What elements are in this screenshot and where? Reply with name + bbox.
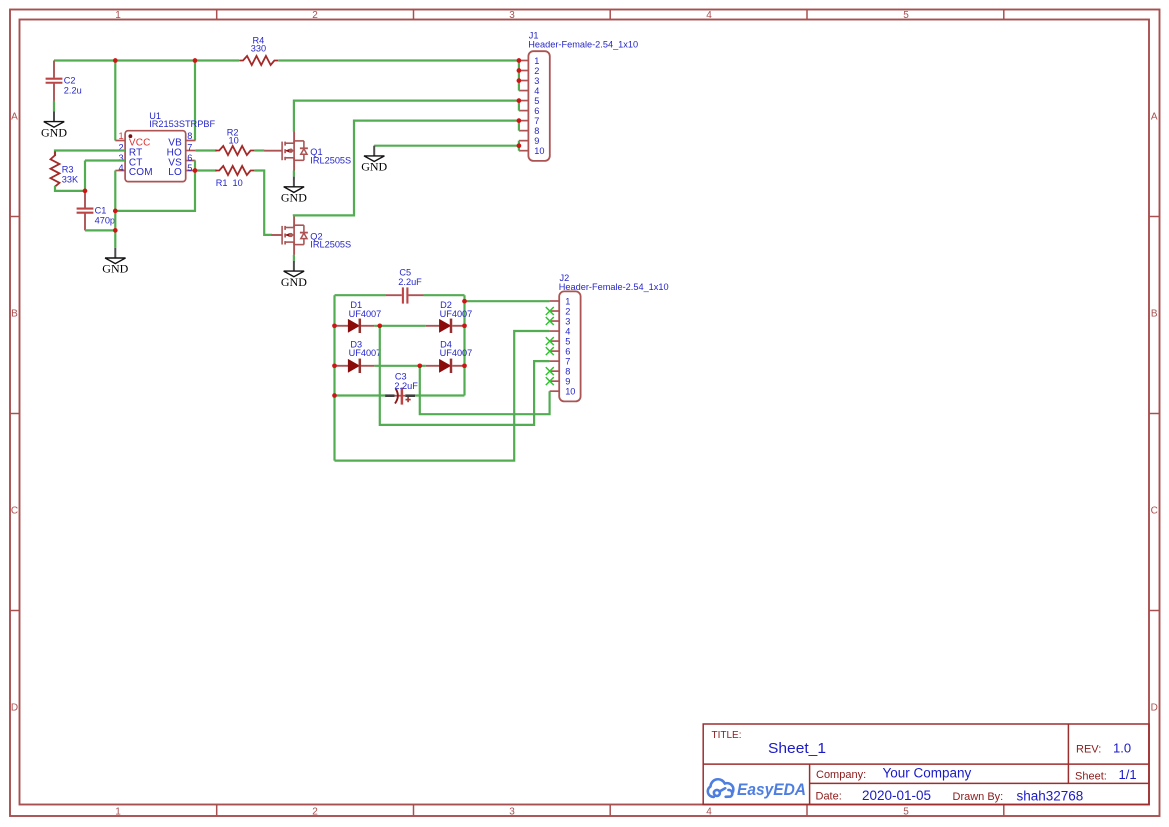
svg-text:6: 6	[187, 153, 192, 163]
transistor Q2 IRL2505S	[272, 216, 308, 255]
wire bridge right vertical	[463, 295, 465, 395]
wire U1 COM down to ground	[114, 171, 116, 248]
wire J2 pin4 to bridge left	[335, 331, 550, 461]
svg-text:10: 10	[565, 387, 575, 397]
svg-text:GND: GND	[281, 275, 307, 289]
transistor Q1 IRL2505S	[264, 132, 308, 171]
svg-text:B: B	[11, 309, 18, 320]
wire C3 row right	[415, 394, 465, 396]
svg-text:9: 9	[534, 136, 539, 146]
svg-text:Company:: Company:	[816, 769, 866, 781]
wire D1-D2 node to J2 pin7	[380, 326, 550, 425]
wire U1 HO to R2	[195, 149, 216, 151]
frame row labels left A-D	[11, 112, 18, 714]
svg-text:C1: C1	[95, 205, 107, 215]
svg-text:7: 7	[534, 116, 539, 126]
ground below C2	[41, 111, 67, 139]
node junction COM/mid rail	[113, 209, 118, 214]
svg-text:C5: C5	[399, 268, 411, 278]
U1 pin stubs	[115, 141, 195, 171]
svg-text:33K: 33K	[62, 174, 79, 184]
wire J1 pins1-4 tie	[518, 61, 520, 91]
no-connect flag J2 pin8	[546, 367, 554, 375]
wire rail down to U1 pin1 VCC	[114, 61, 116, 141]
svg-text:9: 9	[565, 377, 570, 387]
frame row labels right A-D	[1151, 112, 1158, 714]
svg-text:2.2u: 2.2u	[64, 86, 82, 96]
wire J1 pin7 route to Q2 drain	[294, 121, 519, 217]
J1 pin numbers 1-10	[534, 56, 544, 156]
no-connect flag J2 pin5	[546, 337, 554, 345]
node junction rail to U1 VB	[193, 58, 198, 63]
wire J1 pins7-8 tie	[518, 121, 520, 131]
svg-text:EasyEDA: EasyEDA	[737, 780, 806, 799]
svg-text:A: A	[1151, 112, 1158, 123]
svg-text:LO: LO	[168, 167, 182, 178]
wire Q1 source to ground	[293, 171, 295, 177]
wire R2 to Q1 gate	[254, 149, 264, 151]
wire J1 pins9-10 tie	[518, 141, 520, 151]
svg-text:REV:: REV:	[1076, 743, 1101, 755]
capacitor C3 polarized	[385, 388, 415, 405]
svg-text:5: 5	[534, 96, 539, 106]
svg-text:UF4007: UF4007	[349, 309, 382, 319]
wire R1 to Q2 gate	[254, 171, 272, 235]
svg-text:C3: C3	[395, 371, 407, 381]
no-connect flag J2 pin2	[546, 307, 554, 315]
title block divider rev column	[1067, 724, 1069, 783]
capacitor C1	[77, 191, 94, 231]
diode D3 UF4007	[335, 359, 375, 373]
svg-text:shah32768: shah32768	[1017, 788, 1084, 803]
node bridge right pin1 branch	[462, 299, 467, 304]
title block divider under title row	[703, 763, 1149, 765]
svg-text:D: D	[1151, 703, 1158, 714]
svg-text:7: 7	[187, 142, 192, 152]
svg-text:1: 1	[115, 10, 121, 21]
connector J2 body	[559, 291, 580, 401]
title block divider company/date	[810, 782, 1149, 784]
J1 pin stubs	[519, 61, 529, 151]
diode D2 UF4007	[426, 319, 465, 333]
svg-text:Drawn By:: Drawn By:	[953, 791, 1004, 803]
capacitor C5	[386, 287, 424, 303]
wire bridge top left	[335, 294, 387, 296]
node junction R3/C1/CT	[83, 189, 88, 194]
no-connect flag J2 pin6	[546, 347, 554, 355]
svg-text:Sheet_1: Sheet_1	[768, 740, 826, 757]
frame column labels top 1-5	[115, 10, 909, 21]
ground below Q1	[281, 177, 307, 205]
wire bridge top right	[424, 294, 465, 296]
connector J1 body	[528, 51, 549, 161]
svg-text:TITLE:: TITLE:	[712, 730, 742, 741]
no-connect flag J2 pin9	[546, 377, 554, 385]
svg-text:1: 1	[118, 131, 123, 141]
svg-text:IR2153STRPBF: IR2153STRPBF	[149, 119, 215, 129]
EasyEDA logo cloud icon	[708, 779, 734, 797]
wire J1 pin9-10 to ground	[374, 145, 519, 147]
resistor R3	[51, 151, 60, 190]
node J1 pin5 junction	[517, 98, 522, 103]
wire C1 bottom to ground net	[85, 229, 115, 231]
svg-text:GND: GND	[102, 262, 128, 276]
svg-text:COM: COM	[129, 167, 153, 178]
wire C3 row left	[335, 394, 386, 396]
svg-text:GND: GND	[41, 125, 67, 139]
node J1 pin3 junction	[517, 78, 522, 83]
wire R3 top to U1 RT	[55, 151, 125, 157]
frame column labels bottom 1-5	[115, 807, 909, 818]
svg-text:D: D	[11, 703, 18, 714]
svg-text:8: 8	[565, 367, 570, 377]
svg-text:10: 10	[534, 146, 544, 156]
wire Q2 source to ground	[293, 255, 295, 261]
resistor R1	[215, 166, 254, 175]
svg-text:Your Company: Your Company	[883, 766, 972, 781]
node bridge left C3	[332, 393, 337, 398]
svg-text:1: 1	[565, 296, 570, 306]
svg-text:6: 6	[534, 106, 539, 116]
wire U1 CT to vertical	[85, 159, 125, 161]
svg-text:IRL2505S: IRL2505S	[310, 155, 351, 165]
svg-text:UF4007: UF4007	[440, 348, 473, 358]
svg-text:GND: GND	[281, 191, 307, 205]
svg-text:5: 5	[903, 10, 909, 21]
node J1 pin2 junction	[517, 68, 522, 73]
resistor R4	[239, 56, 278, 65]
node bridge left D3	[332, 363, 337, 368]
wire D3-D4 node to J2 pin10	[420, 366, 550, 414]
node J1 pin7 junction	[517, 118, 522, 123]
node junction rail to U1 VCC	[113, 58, 118, 63]
svg-text:UF4007: UF4007	[440, 309, 473, 319]
node bridge right D4	[462, 363, 467, 368]
no-connect flag J2 pin3	[546, 317, 554, 325]
svg-text:C2: C2	[64, 76, 76, 86]
svg-text:330: 330	[251, 44, 266, 54]
diode D1 UF4007	[335, 319, 375, 333]
svg-text:3: 3	[565, 316, 570, 326]
J2 pin stubs	[550, 301, 560, 391]
resistor R2	[215, 146, 254, 155]
node D1-D2 junction	[377, 323, 382, 328]
svg-text:7: 7	[565, 357, 570, 367]
svg-text:1: 1	[534, 56, 539, 66]
wire CT vertical	[84, 161, 86, 191]
svg-text:2: 2	[534, 66, 539, 76]
svg-text:8: 8	[534, 126, 539, 136]
svg-text:2: 2	[565, 306, 570, 316]
svg-text:R1 10: R1 10	[216, 178, 243, 188]
wire bridge left vertical	[333, 295, 335, 460]
svg-text:Sheet:: Sheet:	[1075, 771, 1107, 783]
diode D4 UF4007	[426, 359, 465, 373]
svg-text:3: 3	[509, 10, 515, 21]
svg-text:R3: R3	[62, 164, 74, 174]
J2 pin numbers 1-10	[565, 296, 575, 396]
svg-text:3: 3	[509, 807, 515, 818]
svg-text:2: 2	[312, 10, 318, 21]
node junction COM/C1	[113, 228, 118, 233]
title block outline	[703, 724, 1149, 805]
ground below Q2	[281, 261, 307, 289]
wire J1 pin5 to Q1 drain	[294, 101, 519, 132]
svg-text:470p: 470p	[95, 215, 115, 225]
svg-text:2020-01-05: 2020-01-05	[862, 788, 931, 803]
wire J2 pin1 feed	[465, 300, 550, 302]
ground below C1 net	[102, 248, 128, 276]
node bridge left D1	[332, 323, 337, 328]
svg-text:10: 10	[228, 136, 238, 146]
wire mid rail LO-COM	[115, 161, 195, 211]
svg-text:4: 4	[565, 326, 570, 336]
svg-text:B: B	[1151, 309, 1158, 320]
wire D1 cathode to D2 anode	[374, 325, 425, 327]
svg-text:1.0: 1.0	[1113, 740, 1131, 755]
U1 pin1 indicator dot	[129, 134, 133, 138]
svg-text:1: 1	[115, 807, 121, 818]
svg-text:2.2uF: 2.2uF	[398, 277, 422, 287]
svg-text:C: C	[11, 506, 18, 517]
wire D3 cathode to D4 anode	[374, 365, 425, 367]
node junction LO pin	[193, 168, 198, 173]
wire J1 pins5-6 tie	[518, 101, 520, 111]
wire VCC top rail left segment	[54, 59, 239, 61]
svg-text:4: 4	[706, 807, 712, 818]
node bridge right D2	[462, 323, 467, 328]
svg-text:Date:: Date:	[816, 791, 842, 803]
node J1 pin1 junction	[517, 58, 522, 63]
svg-text:2.2uF: 2.2uF	[394, 381, 418, 391]
svg-text:Header-Female-2.54_1x10: Header-Female-2.54_1x10	[559, 282, 669, 292]
svg-text:GND: GND	[361, 160, 387, 174]
wire rail down to U1 pin8 VB	[194, 61, 196, 141]
svg-text:UF4007: UF4007	[349, 348, 382, 358]
svg-text:A: A	[11, 112, 18, 123]
svg-text:5: 5	[903, 807, 909, 818]
svg-text:4: 4	[118, 163, 123, 173]
svg-text:6: 6	[565, 347, 570, 357]
wire U1 LO to R1	[195, 169, 217, 171]
svg-text:Header-Female-2.54_1x10: Header-Female-2.54_1x10	[528, 40, 638, 50]
svg-text:2: 2	[312, 807, 318, 818]
svg-text:C: C	[1151, 506, 1158, 517]
op-amp U1 IR2153STRPBF body	[125, 131, 186, 182]
capacitor C2	[46, 61, 63, 101]
svg-text:4: 4	[706, 10, 712, 21]
svg-text:8: 8	[187, 131, 192, 141]
svg-text:1/1: 1/1	[1119, 767, 1137, 782]
svg-text:4: 4	[534, 86, 539, 96]
svg-text:IRL2505S: IRL2505S	[310, 240, 351, 250]
svg-text:3: 3	[534, 76, 539, 86]
svg-text:5: 5	[565, 336, 570, 346]
wire VCC top rail right segment to J1 pin1	[278, 59, 519, 61]
node D3-D4 junction	[417, 363, 422, 368]
wire C2 to ground	[53, 101, 55, 112]
title block divider logo cell	[809, 764, 811, 804]
node J1 pin9-10 junction	[517, 143, 522, 148]
svg-text:5: 5	[187, 163, 192, 173]
ground for J1 pins 9-10	[361, 146, 387, 174]
wire R3 bottom to C1 junction	[55, 186, 85, 191]
